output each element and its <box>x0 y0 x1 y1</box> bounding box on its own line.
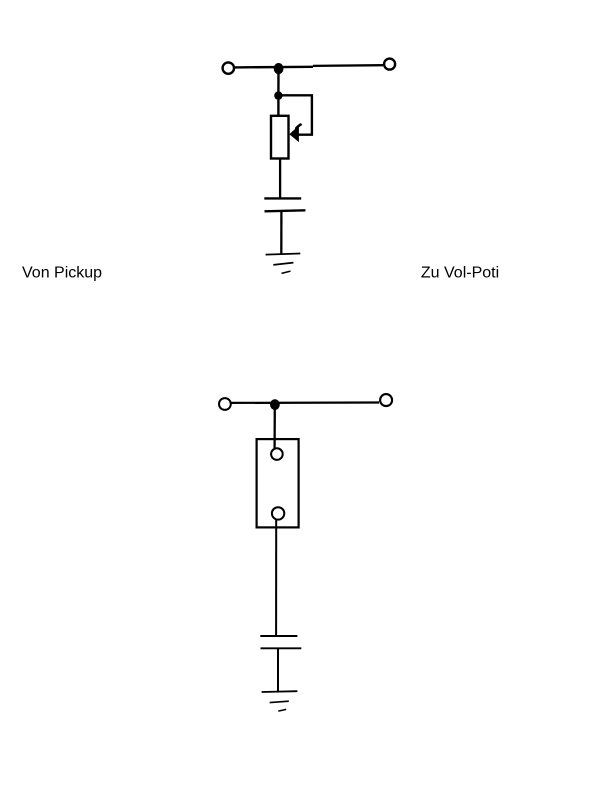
wire junction down to wiper node <box>277 69 280 96</box>
wire wiper feedback loop <box>280 95 312 134</box>
ground symbol bottom bar (top circuit) <box>282 271 291 273</box>
ground symbol bottom bar (bottom circuit) <box>278 709 286 711</box>
wire trimmer to capacitor C2 <box>275 520 277 636</box>
node dot wiper connection <box>274 91 282 99</box>
terminal T3 left (bottom circuit) <box>219 398 231 410</box>
terminal T2 right (to volume pot) <box>384 59 395 70</box>
terminal T1 left (input from pickup) <box>223 62 234 73</box>
ground symbol top bar (bottom circuit) <box>262 690 298 693</box>
wire capacitor C1 to ground <box>280 211 282 254</box>
wire bottom horizontal T3 to T4 <box>231 401 379 404</box>
capacitor C1 top plate <box>264 197 301 199</box>
ground symbol top bar (top circuit) <box>266 254 301 255</box>
svg-text:Von Pickup: Von Pickup <box>22 265 102 282</box>
ground symbol middle bar (top circuit) <box>273 263 293 265</box>
capacitor C1 bottom plate <box>265 210 306 211</box>
trimmer bottom terminal circle <box>272 507 284 519</box>
trimmer component body rectangle <box>257 439 299 527</box>
capacitor C2 bottom plate <box>261 647 302 649</box>
capacitor C2 top plate <box>260 635 297 637</box>
wire top horizontal T1 to T2 <box>235 66 313 69</box>
trimmer top terminal circle <box>271 448 283 460</box>
junction dot top circuit <box>274 63 284 74</box>
wire wiper node down to potentiometer <box>277 96 279 117</box>
svg-text:Zu Vol-Poti: Zu Vol-Poti <box>421 265 499 282</box>
potentiometer R1 wiper arrowhead <box>289 125 299 142</box>
wire junction to trimmer body <box>273 405 275 448</box>
wiper arrowhead top overshoot stroke <box>296 125 300 129</box>
wire pot to capacitor C1 <box>279 159 281 199</box>
junction dot bottom circuit <box>270 399 280 410</box>
ground symbol middle bar (bottom circuit) <box>270 701 289 702</box>
wire capacitor C2 to ground <box>277 649 279 692</box>
potentiometer R1 body <box>271 116 289 159</box>
terminal T4 right (bottom circuit) <box>380 394 392 406</box>
